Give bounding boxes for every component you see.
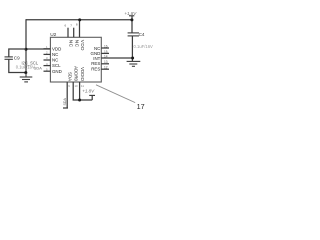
wire capacitor C9 top lead <box>9 49 26 57</box>
svg-text:SDA: SDA <box>63 98 67 106</box>
svg-text:17: 17 <box>137 102 145 111</box>
ground (left) <box>20 73 33 82</box>
svg-text:SDA: SDA <box>68 72 73 81</box>
svg-text:U2: U2 <box>50 32 56 38</box>
svg-text:VDD: VDD <box>80 40 85 51</box>
pin 16 NC stub right <box>101 47 109 49</box>
wire top rail VDD <box>26 19 132 21</box>
leader line to note 17 <box>96 85 135 103</box>
pin labels bottom (rotated) <box>68 66 85 81</box>
pin VDD top stub to rail <box>79 20 81 37</box>
pin ADDR bottom stub <box>73 82 92 100</box>
pin numbers right <box>104 44 108 69</box>
node junction rail/VDD (80,20) <box>78 18 81 21</box>
pin labels right column <box>91 46 101 72</box>
svg-text:RES: RES <box>91 61 100 66</box>
pin numbers left <box>46 45 48 71</box>
pin SDA bottom stub <box>66 82 68 108</box>
SDA off-page tick <box>63 107 68 109</box>
svg-text:C4: C4 <box>139 32 145 37</box>
svg-text:NC: NC <box>52 52 58 57</box>
wire C4 bottom to ground node <box>131 36 133 61</box>
pin 13 RES stub right <box>101 63 109 65</box>
pin 12 RES stub right <box>101 68 109 70</box>
pin 2 NC stub <box>44 53 51 55</box>
ground (right) <box>127 61 141 66</box>
svg-text:15: 15 <box>104 50 108 54</box>
node junction rail/power (132,19.7) <box>130 18 133 21</box>
pin labels left column <box>52 46 62 73</box>
svg-text:SCL: SCL <box>52 63 61 68</box>
svg-text:0.1uF/16V: 0.1uF/16V <box>134 44 154 49</box>
svg-text:VDD: VDD <box>52 46 61 51</box>
svg-text:RES: RES <box>91 67 100 72</box>
pin 3 NC stub <box>44 59 51 61</box>
svg-text:11: 11 <box>81 84 84 88</box>
power tap +1.8V bottom <box>91 96 93 100</box>
svg-text:+1.8V: +1.8V <box>82 89 95 94</box>
node junction at (26,72.5) <box>24 71 27 74</box>
svg-text:NC: NC <box>74 40 79 48</box>
svg-text:ADDR0: ADDR0 <box>74 66 79 81</box>
node junction (132.8,58) <box>131 57 134 60</box>
pin numbers top <box>65 22 78 27</box>
svg-text:12: 12 <box>104 66 108 70</box>
wire power to cap C4 <box>131 16 133 33</box>
svg-text:NC: NC <box>69 40 74 48</box>
wire VDD pin feed <box>26 48 50 50</box>
svg-text:C9: C9 <box>14 55 20 60</box>
svg-text:NC: NC <box>52 58 58 63</box>
pin NC top stub b <box>73 28 75 38</box>
pin 14 INT wire to C4/ground node <box>101 57 133 59</box>
capacitor C4 <box>128 33 139 36</box>
svg-text:GND: GND <box>52 69 62 74</box>
svg-text:13: 13 <box>104 60 108 64</box>
svg-text:10: 10 <box>75 84 79 88</box>
wire left vertical from rail to ground <box>25 19 27 73</box>
svg-text:16: 16 <box>104 44 108 48</box>
svg-text:SDA: SDA <box>34 65 42 70</box>
svg-text:VDDIO: VDDIO <box>80 67 85 81</box>
pin 15 GND stub right <box>101 52 109 54</box>
pin labels top (rotated) <box>69 40 86 51</box>
pin numbers bottom <box>68 84 84 88</box>
pin NC top stub a <box>67 28 69 38</box>
capacitor C9 <box>5 57 13 59</box>
pin 4 SCL stub <box>44 65 51 67</box>
node junction (79.6,100) <box>78 99 81 102</box>
pin VREG bottom stub <box>79 82 81 100</box>
node junction at (26,49) <box>25 48 28 51</box>
wire capacitor C9 bottom lead <box>9 60 26 73</box>
svg-text:14: 14 <box>104 54 108 58</box>
pin 5 GND stub <box>44 70 51 72</box>
IC U2 body <box>50 37 101 82</box>
pin 1 VDD stub <box>44 48 51 50</box>
